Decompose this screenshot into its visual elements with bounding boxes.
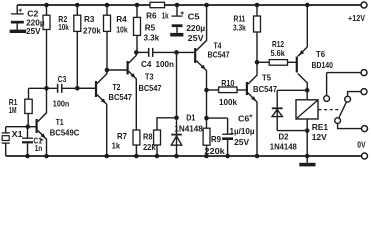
svg-text:25V: 25V [234,137,249,147]
svg-text:T3: T3 [145,71,154,81]
svg-text:R5: R5 [145,22,156,32]
svg-text:R4: R4 [116,14,127,24]
svg-text:BC549C: BC549C [50,127,80,137]
svg-text:5.6k: 5.6k [271,48,286,58]
svg-text:220µ: 220µ [186,23,205,33]
svg-text:R8: R8 [143,131,153,141]
svg-text:100n: 100n [53,98,70,108]
svg-text:10k: 10k [58,22,69,32]
svg-text:1n: 1n [35,143,43,153]
svg-text:R6: R6 [146,11,157,21]
svg-text:C5: C5 [188,12,200,22]
svg-text:+12V: +12V [348,13,365,23]
svg-text:BC547: BC547 [109,92,133,102]
svg-text:T6: T6 [316,49,325,59]
svg-text:D2: D2 [279,131,289,141]
svg-text:RE1: RE1 [312,122,329,132]
svg-text:BD140: BD140 [312,60,334,70]
svg-text:3.3k: 3.3k [144,33,160,43]
svg-text:R7: R7 [117,131,127,141]
svg-text:C3: C3 [58,74,67,84]
svg-text:0V: 0V [357,140,366,150]
svg-text:12V: 12V [312,132,327,142]
svg-text:22k: 22k [143,142,156,152]
svg-text:C4: C4 [141,59,152,69]
svg-text:100k: 100k [219,97,237,107]
svg-text:1N4148: 1N4148 [270,141,297,151]
svg-text:BC547: BC547 [139,83,162,93]
svg-text:1N4148: 1N4148 [174,123,203,133]
svg-text:25V: 25V [188,33,204,43]
svg-text:220k: 220k [204,146,225,156]
svg-text:270k: 270k [83,26,101,36]
svg-text:R10: R10 [221,78,234,88]
svg-text:1k: 1k [162,11,169,21]
svg-text:D1: D1 [186,113,195,123]
svg-text:25V: 25V [26,26,41,36]
svg-text:1M: 1M [9,105,17,115]
svg-text:100n: 100n [156,59,175,69]
svg-text:1µ/10µ: 1µ/10µ [230,126,255,136]
svg-text:X1: X1 [12,129,23,139]
svg-text:BC547: BC547 [253,84,277,94]
svg-text:BC547: BC547 [208,49,230,59]
svg-text:1k: 1k [112,141,121,151]
svg-text:C6: C6 [238,114,250,124]
svg-text:R9: R9 [211,134,221,144]
svg-text:T5: T5 [262,73,271,83]
svg-text:R3: R3 [84,14,95,24]
svg-text:T1: T1 [56,117,64,127]
svg-text:T2: T2 [113,82,121,92]
svg-text:3.3k: 3.3k [233,22,246,32]
svg-text:10k: 10k [116,24,128,34]
